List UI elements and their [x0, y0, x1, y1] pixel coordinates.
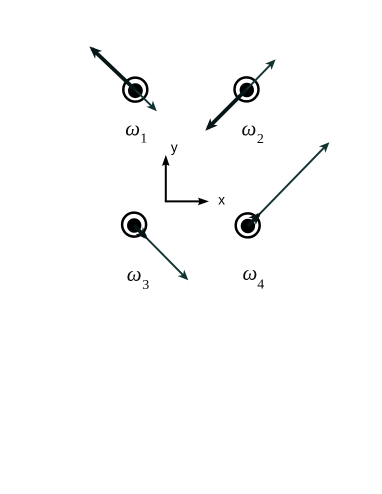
- wheel W3 thick arrow shaft: [134, 226, 145, 238]
- svg-text:1: 1: [140, 132, 147, 147]
- wheel W4 hub dot: [241, 219, 255, 233]
- svg-text:3: 3: [142, 278, 149, 293]
- wheel W1 outer circle: [123, 78, 147, 102]
- wheel W3 thin arrowhead: [178, 270, 192, 284]
- wheel W1 thin arrow shaft: [135, 90, 153, 108]
- svg-text:ω: ω: [242, 117, 257, 141]
- wheel W1 thick arrow shaft: [92, 49, 135, 90]
- coordinate axes y-axis shaft: [165, 159, 167, 202]
- wheel W4 thick arrowhead: [248, 209, 264, 225]
- wheel W1 thin arrowhead: [146, 101, 160, 115]
- wheel W4 thin arrow shaft: [248, 145, 327, 226]
- y-axis arrowhead: [162, 155, 170, 166]
- wheel W3 thin arrow shaft: [134, 226, 186, 278]
- svg-text:ω: ω: [125, 117, 140, 141]
- svg-text:2: 2: [257, 132, 264, 147]
- svg-text:y: y: [171, 140, 178, 155]
- wheel W4 thick arrow shaft: [248, 215, 259, 226]
- wheel W2 thin arrowhead: [265, 56, 279, 70]
- wheel W4 outer circle: [236, 213, 260, 237]
- wheel W2 thin arrow shaft: [247, 63, 273, 90]
- wheel W2 outer circle: [235, 77, 259, 101]
- wheel W1 thick arrowhead: [86, 43, 102, 59]
- x-axis arrowhead: [198, 198, 209, 206]
- wheel W3 thick arrowhead: [136, 227, 152, 243]
- wheel W2 thick arrowhead: [202, 118, 218, 134]
- x-axis shaft: [165, 200, 206, 202]
- wheel W4 thin arrowhead: [319, 139, 333, 153]
- svg-text:x: x: [218, 193, 225, 208]
- svg-text:ω: ω: [127, 262, 142, 286]
- wheel W2 hub dot: [240, 83, 254, 97]
- wheel W3 outer circle: [122, 213, 146, 237]
- wheel W2 thick arrow shaft: [208, 89, 247, 128]
- svg-text:4: 4: [257, 278, 264, 293]
- wheel W3 hub dot: [127, 218, 141, 232]
- svg-text:ω: ω: [243, 261, 258, 285]
- wheel W1 hub dot: [128, 83, 143, 98]
